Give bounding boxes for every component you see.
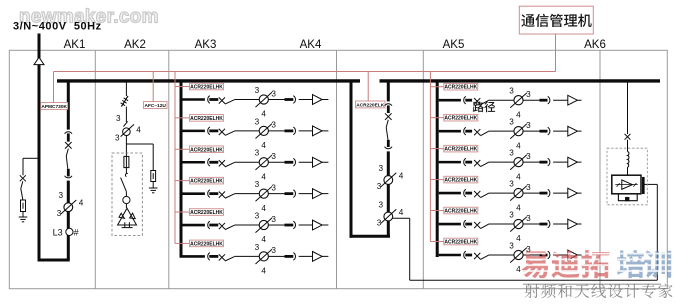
communication manager box 通信管理机	[519, 6, 593, 34]
svg-text:4: 4	[516, 110, 521, 119]
wire and load arrow (AK5 row 4)	[553, 192, 581, 194]
RS485 stub to meter (AK5 row 4)	[430, 179, 443, 181]
svg-text:3: 3	[379, 200, 384, 209]
feeder AK3/AK4 row 6: wire from bus	[182, 255, 205, 258]
wire	[523, 192, 539, 194]
feeder AK3/AK4 row 1: wire from bus	[182, 98, 205, 101]
RS485 horizontal network wire	[54, 71, 556, 73]
meter label ACR220ELHK (AK3/AK4 row 4)	[190, 177, 224, 184]
meter label ACR220ELHK (AK3/AK4 row 5)	[190, 209, 224, 216]
RS485 stub to meter (AK5 row 1)	[430, 86, 443, 88]
wire	[125, 107, 127, 122]
isolating switch (PT)	[125, 173, 127, 176]
svg-text:3: 3	[509, 149, 514, 158]
meter label ACR220ELHK (AK3/AK4 row 2)	[190, 115, 224, 122]
svg-text:3: 3	[255, 243, 260, 252]
current transformer (AK5 row 2)	[514, 127, 523, 136]
svg-text:ACR220ELK: ACR220ELK	[356, 102, 385, 108]
current transformer (AK5 row 5)	[514, 219, 523, 228]
wire: AK1 right riser to busbar	[67, 82, 70, 130]
svg-text:3: 3	[377, 182, 382, 191]
svg-text:AK1: AK1	[64, 39, 86, 51]
wire	[269, 99, 285, 101]
annotation 路径	[473, 101, 495, 112]
svg-text:AK5: AK5	[443, 39, 465, 51]
wire	[523, 130, 539, 132]
current transformer CT5b	[384, 212, 393, 221]
wire	[269, 255, 285, 257]
wire: AK2 tap from busbar	[125, 82, 127, 96]
svg-text:3: 3	[115, 133, 120, 142]
EPS dashed enclosure	[607, 148, 647, 205]
svg-text:3: 3	[509, 179, 514, 188]
AK3 vertical distribution bus	[180, 82, 183, 258]
wire	[269, 130, 285, 132]
wire and load arrow (AK5 row 6)	[553, 254, 581, 256]
current transformer (AK3/AK4 row 2)	[259, 126, 268, 135]
disconnector (arrester branch)	[20, 175, 26, 181]
svg-text:4: 4	[261, 110, 266, 119]
current transformer (AK5 row 3)	[514, 158, 523, 167]
busbar section I (AK1-AK4)	[57, 79, 360, 82]
inductor (AK6)	[628, 152, 629, 168]
svg-text:ACR220ELHK: ACR220ELHK	[190, 85, 223, 91]
ground (arrester)	[22, 212, 24, 217]
svg-text:3: 3	[509, 87, 514, 96]
svg-text:3: 3	[526, 152, 531, 161]
svg-text:3: 3	[271, 246, 276, 255]
voltage transformer (delta) symbol	[118, 208, 137, 225]
meter label ACR220ELHK (AK5 row 4)	[444, 176, 478, 183]
wire	[269, 161, 285, 163]
feeder AK3/AK4 row 2: wire from bus	[182, 130, 205, 133]
feeder AK5 row 5: wire from bus	[439, 223, 461, 226]
fuse FU2 (PT primary)	[124, 156, 129, 167]
svg-text:ACR220ELHK: ACR220ELHK	[190, 210, 223, 216]
feeder AK3/AK4 row 3: wire from bus	[182, 161, 205, 164]
wire	[523, 99, 539, 101]
current transformer (AK3/AK4 row 3)	[259, 158, 268, 167]
busbar section II (AK5-AK6)	[380, 79, 661, 82]
wire	[627, 167, 629, 175]
svg-text:ACR220ELHK: ACR220ELHK	[190, 116, 223, 122]
svg-text:3: 3	[255, 180, 260, 189]
circuit breaker (AK3/AK4 row 6)	[208, 253, 210, 261]
svg-text:3: 3	[526, 121, 531, 130]
svg-text:4: 4	[136, 125, 141, 134]
circuit breaker QF1 (withdrawable)	[65, 132, 72, 134]
feeder AK3/AK4 row 5: wire from bus	[182, 224, 205, 227]
meter label ACR220ELHK (AK5 row 5)	[444, 207, 478, 214]
svg-text:3: 3	[379, 164, 384, 173]
svg-text:ACR220ELHK: ACR220ELHK	[444, 85, 477, 91]
wire: AK1 bottom link	[38, 259, 70, 262]
svg-text:4: 4	[399, 171, 404, 180]
current transformer (AK5 row 1)	[514, 96, 523, 105]
svg-text:4: 4	[399, 208, 404, 217]
wire: AK6 tap from busbar	[627, 82, 629, 134]
svg-text:3: 3	[271, 183, 276, 192]
wire	[523, 223, 539, 225]
wire: AK5 tie right riser	[387, 151, 390, 236]
feeder AK5 row 4: wire from bus	[439, 192, 461, 195]
feeder AK5 row 2: wire from bus	[439, 130, 461, 133]
wire: AK5 tie bottom link	[350, 235, 391, 238]
meter label ACR220ELHK (AK5 row 1)	[444, 83, 478, 90]
meter label ACR220ELHK (AK5 row 3)	[444, 145, 478, 152]
feeder AK5 row 6: wire from bus	[439, 254, 461, 257]
svg-text:L3: L3	[53, 228, 63, 238]
svg-text:3: 3	[526, 214, 531, 223]
current transformer (AK5 row 6)	[514, 250, 523, 259]
svg-text:4: 4	[516, 172, 521, 181]
circuit breaker (AK3/AK4 row 4)	[208, 190, 210, 198]
svg-text:ACR220ELHK: ACR220ELHK	[190, 179, 223, 185]
svg-text:ACR220ELHK: ACR220ELHK	[444, 147, 477, 153]
svg-text:4: 4	[261, 141, 266, 150]
svg-text:ACR220ELHK: ACR220ELHK	[190, 241, 223, 247]
meter label AFC-12U	[144, 102, 168, 109]
circuit breaker (AK3/AK4 row 3)	[208, 158, 210, 166]
wire and load arrow (AK3/AK4 row 5)	[299, 224, 329, 226]
feeder AK3/AK4 row 4: wire from bus	[182, 192, 205, 195]
wire and load arrow (AK5 row 1)	[553, 99, 581, 101]
current transformer (AK5 row 4)	[514, 188, 523, 197]
svg-text:AK3: AK3	[195, 39, 217, 51]
circuit breaker (AK5 row 6)	[464, 251, 466, 259]
RS485 stub to meter (AK5 row 2)	[430, 117, 443, 119]
RS485 drop wire from communication manager	[555, 34, 557, 72]
meter label ACR220ELHK (AK3/AK4 row 3)	[190, 146, 224, 153]
RS485 trunk wire (AK5 meters)	[429, 72, 431, 242]
meter label ACR220ELHK (AK5 row 2)	[444, 114, 478, 121]
fuse link FU1 (AK2)	[121, 96, 128, 107]
wire and load arrow (AK5 row 5)	[553, 223, 581, 225]
circuit breaker (AK5 row 3)	[464, 158, 466, 166]
svg-text:3: 3	[526, 183, 531, 192]
wire	[269, 224, 285, 226]
PT cubicle dashed enclosure	[112, 153, 142, 236]
inverter unit box (AK6)	[612, 175, 641, 194]
svg-text:3: 3	[271, 215, 276, 224]
svg-text:AK4: AK4	[300, 39, 322, 51]
current transformer (AK3/AK4 row 5)	[259, 220, 268, 229]
RS485 stub to meter (AK5 row 3)	[430, 148, 443, 150]
svg-text:4: 4	[516, 203, 521, 212]
svg-text:AK2: AK2	[124, 39, 146, 51]
svg-text:3: 3	[255, 211, 260, 220]
svg-text:4: 4	[516, 141, 521, 150]
wire: RS485 stub to AK5 incomer meter	[367, 72, 369, 102]
current transformer (AK3/AK4 row 4)	[259, 189, 268, 198]
svg-text:3: 3	[271, 121, 276, 130]
RS485 stub to meter (AK5 row 5)	[430, 210, 443, 212]
svg-text:3: 3	[377, 219, 382, 228]
surge arrester F2 (AK2)	[151, 171, 156, 182]
AK5 vertical distribution bus	[436, 82, 439, 257]
svg-text:3: 3	[116, 114, 121, 123]
svg-text:#: #	[74, 228, 79, 238]
wire and load arrow (AK3/AK4 row 1)	[299, 99, 329, 101]
svg-text:APMC730K: APMC730K	[41, 104, 67, 110]
surge arrester F1	[21, 200, 26, 212]
svg-text:4: 4	[261, 204, 266, 213]
svg-text:ACR220ELHK: ACR220ELHK	[444, 240, 477, 246]
circuit breaker (AK3/AK4 row 1)	[208, 96, 210, 104]
wire and load arrow (AK3/AK4 row 2)	[299, 130, 329, 132]
breaker (AK6)	[625, 134, 631, 140]
RS485 stub to meter (AK3/AK4 row 6)	[175, 242, 190, 244]
current transformer (AK3/AK4 row 1)	[259, 95, 268, 104]
wire: branch to arrester (AK2)	[126, 143, 153, 145]
wire and load arrow (AK3/AK4 row 4)	[299, 193, 329, 195]
svg-text:ACR220ELHK: ACR220ELHK	[444, 116, 477, 122]
circuit breaker (AK3/AK4 row 5)	[208, 221, 210, 229]
svg-text:ACR220ELHK: ACR220ELHK	[444, 209, 477, 215]
svg-text:3: 3	[255, 117, 260, 126]
RS485 stub to meter (AK3/AK4 row 3)	[175, 148, 190, 150]
svg-text:3: 3	[509, 118, 514, 127]
wire: surge arrester branch	[23, 157, 39, 159]
svg-text:4: 4	[516, 265, 521, 274]
svg-text:ACR220ELHK: ACR220ELHK	[190, 147, 223, 153]
circuit breaker QF5 (withdrawable)	[385, 104, 392, 106]
wire: incoming supply feeder (AK1 left riser)	[38, 34, 41, 262]
circuit breaker (AK5 row 2)	[464, 127, 466, 135]
circuit breaker (AK5 row 4)	[464, 189, 466, 197]
battery loop (AK6)	[618, 194, 637, 201]
svg-text:4: 4	[261, 267, 266, 276]
svg-text:3: 3	[255, 149, 260, 158]
RS485 stub to meter (AK3/AK4 row 1)	[175, 86, 190, 88]
capacitor bar (AK6)	[642, 177, 644, 194]
ground (AK2 arrester)	[152, 182, 154, 188]
wire: RS485 stub to AK1 meter	[53, 72, 55, 103]
svg-text:3: 3	[59, 191, 64, 200]
current transformer (AK3/AK4 row 6)	[259, 252, 268, 261]
wire and load arrow (AK5 row 3)	[553, 161, 581, 163]
svg-text:3: 3	[526, 90, 531, 99]
wire: RS485 stub to AK2 meter	[152, 72, 154, 102]
wire and load arrow (AK5 row 2)	[553, 130, 581, 132]
meter label ACR220ELHK (AK3/AK4 row 6)	[190, 240, 224, 247]
wire	[269, 193, 285, 195]
PT winding	[123, 196, 130, 203]
meter label ACR220ELHK (AK5 row 6)	[444, 238, 478, 245]
wire and load arrow (AK3/AK4 row 6)	[299, 255, 329, 257]
feeder AK5 row 3: wire from bus	[439, 161, 461, 164]
circuit breaker (AK5 row 5)	[464, 220, 466, 228]
svg-text:AFC–12U: AFC–12U	[145, 103, 167, 109]
svg-text:3: 3	[509, 241, 514, 250]
RS485 stub to meter (AK3/AK4 row 5)	[175, 211, 190, 213]
wire	[523, 254, 539, 256]
circuit breaker (AK3/AK4 row 2)	[208, 127, 210, 135]
meter label APMC730K	[41, 103, 68, 110]
RS485 stub to meter (AK3/AK4 row 4)	[175, 180, 190, 182]
meter label ACR220ELK (AK5 incomer)	[356, 101, 386, 108]
feeder AK5 row 1: wire from bus	[439, 99, 461, 102]
svg-text:4: 4	[79, 199, 84, 208]
supply direction arrow	[34, 57, 44, 64]
wire	[523, 161, 539, 163]
svg-text:4: 4	[261, 235, 266, 244]
svg-text:3/N~400V 50Hz: 3/N~400V 50Hz	[13, 20, 102, 32]
svg-text:3: 3	[271, 152, 276, 161]
svg-text:4: 4	[261, 172, 266, 181]
wire	[125, 168, 127, 174]
wire: AK5 measurement output path	[393, 217, 410, 219]
circuit breaker (AK5 row 1)	[464, 96, 466, 104]
svg-text:3: 3	[57, 209, 62, 218]
meter label ACR220ELHK (AK3/AK4 row 1)	[190, 83, 224, 90]
RS485 trunk wire (AK3 meters)	[174, 72, 176, 244]
wire: AK5 tie left riser	[350, 82, 353, 238]
svg-text:3: 3	[271, 89, 276, 98]
RS485 stub to meter (AK5 row 6)	[430, 241, 443, 243]
svg-text:3: 3	[509, 210, 514, 219]
wire	[125, 136, 127, 157]
RS485 stub to meter (AK3/AK4 row 2)	[175, 117, 190, 119]
current transformer CT5a	[384, 176, 393, 185]
svg-text:AK6: AK6	[584, 39, 606, 51]
svg-text:ACR220ELHK: ACR220ELHK	[444, 178, 477, 184]
svg-text:4: 4	[516, 234, 521, 243]
wire and load arrow (AK3/AK4 row 3)	[299, 161, 329, 163]
svg-text:3: 3	[255, 86, 260, 95]
current transformer CT1 (AK1)	[64, 203, 73, 212]
